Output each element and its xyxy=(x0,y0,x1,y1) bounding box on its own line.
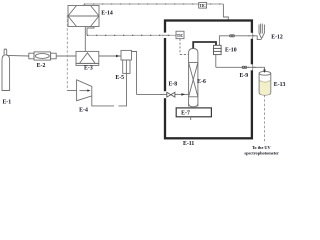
svg-text:TIC: TIC xyxy=(199,4,206,8)
svg-text:TIC: TIC xyxy=(177,34,184,38)
svg-text:E-14: E-14 xyxy=(101,11,113,17)
svg-text:E-1: E-1 xyxy=(2,99,11,105)
svg-text:E-2: E-2 xyxy=(37,63,46,69)
svg-text:E-9: E-9 xyxy=(239,73,248,79)
svg-text:E-4: E-4 xyxy=(79,107,88,113)
svg-text:E-6: E-6 xyxy=(197,79,206,85)
svg-text:E-12: E-12 xyxy=(271,34,283,40)
svg-text:To the UV: To the UV xyxy=(252,145,272,150)
svg-text:E-5: E-5 xyxy=(115,75,124,81)
svg-text:E-11: E-11 xyxy=(183,141,194,147)
svg-text:spectrophotometer: spectrophotometer xyxy=(244,151,279,156)
svg-text:E-7: E-7 xyxy=(181,111,190,117)
svg-text:E-3: E-3 xyxy=(84,66,93,72)
svg-text:E-8: E-8 xyxy=(168,82,177,88)
svg-text:E-13: E-13 xyxy=(274,82,286,88)
svg-text:E-10: E-10 xyxy=(225,47,237,53)
